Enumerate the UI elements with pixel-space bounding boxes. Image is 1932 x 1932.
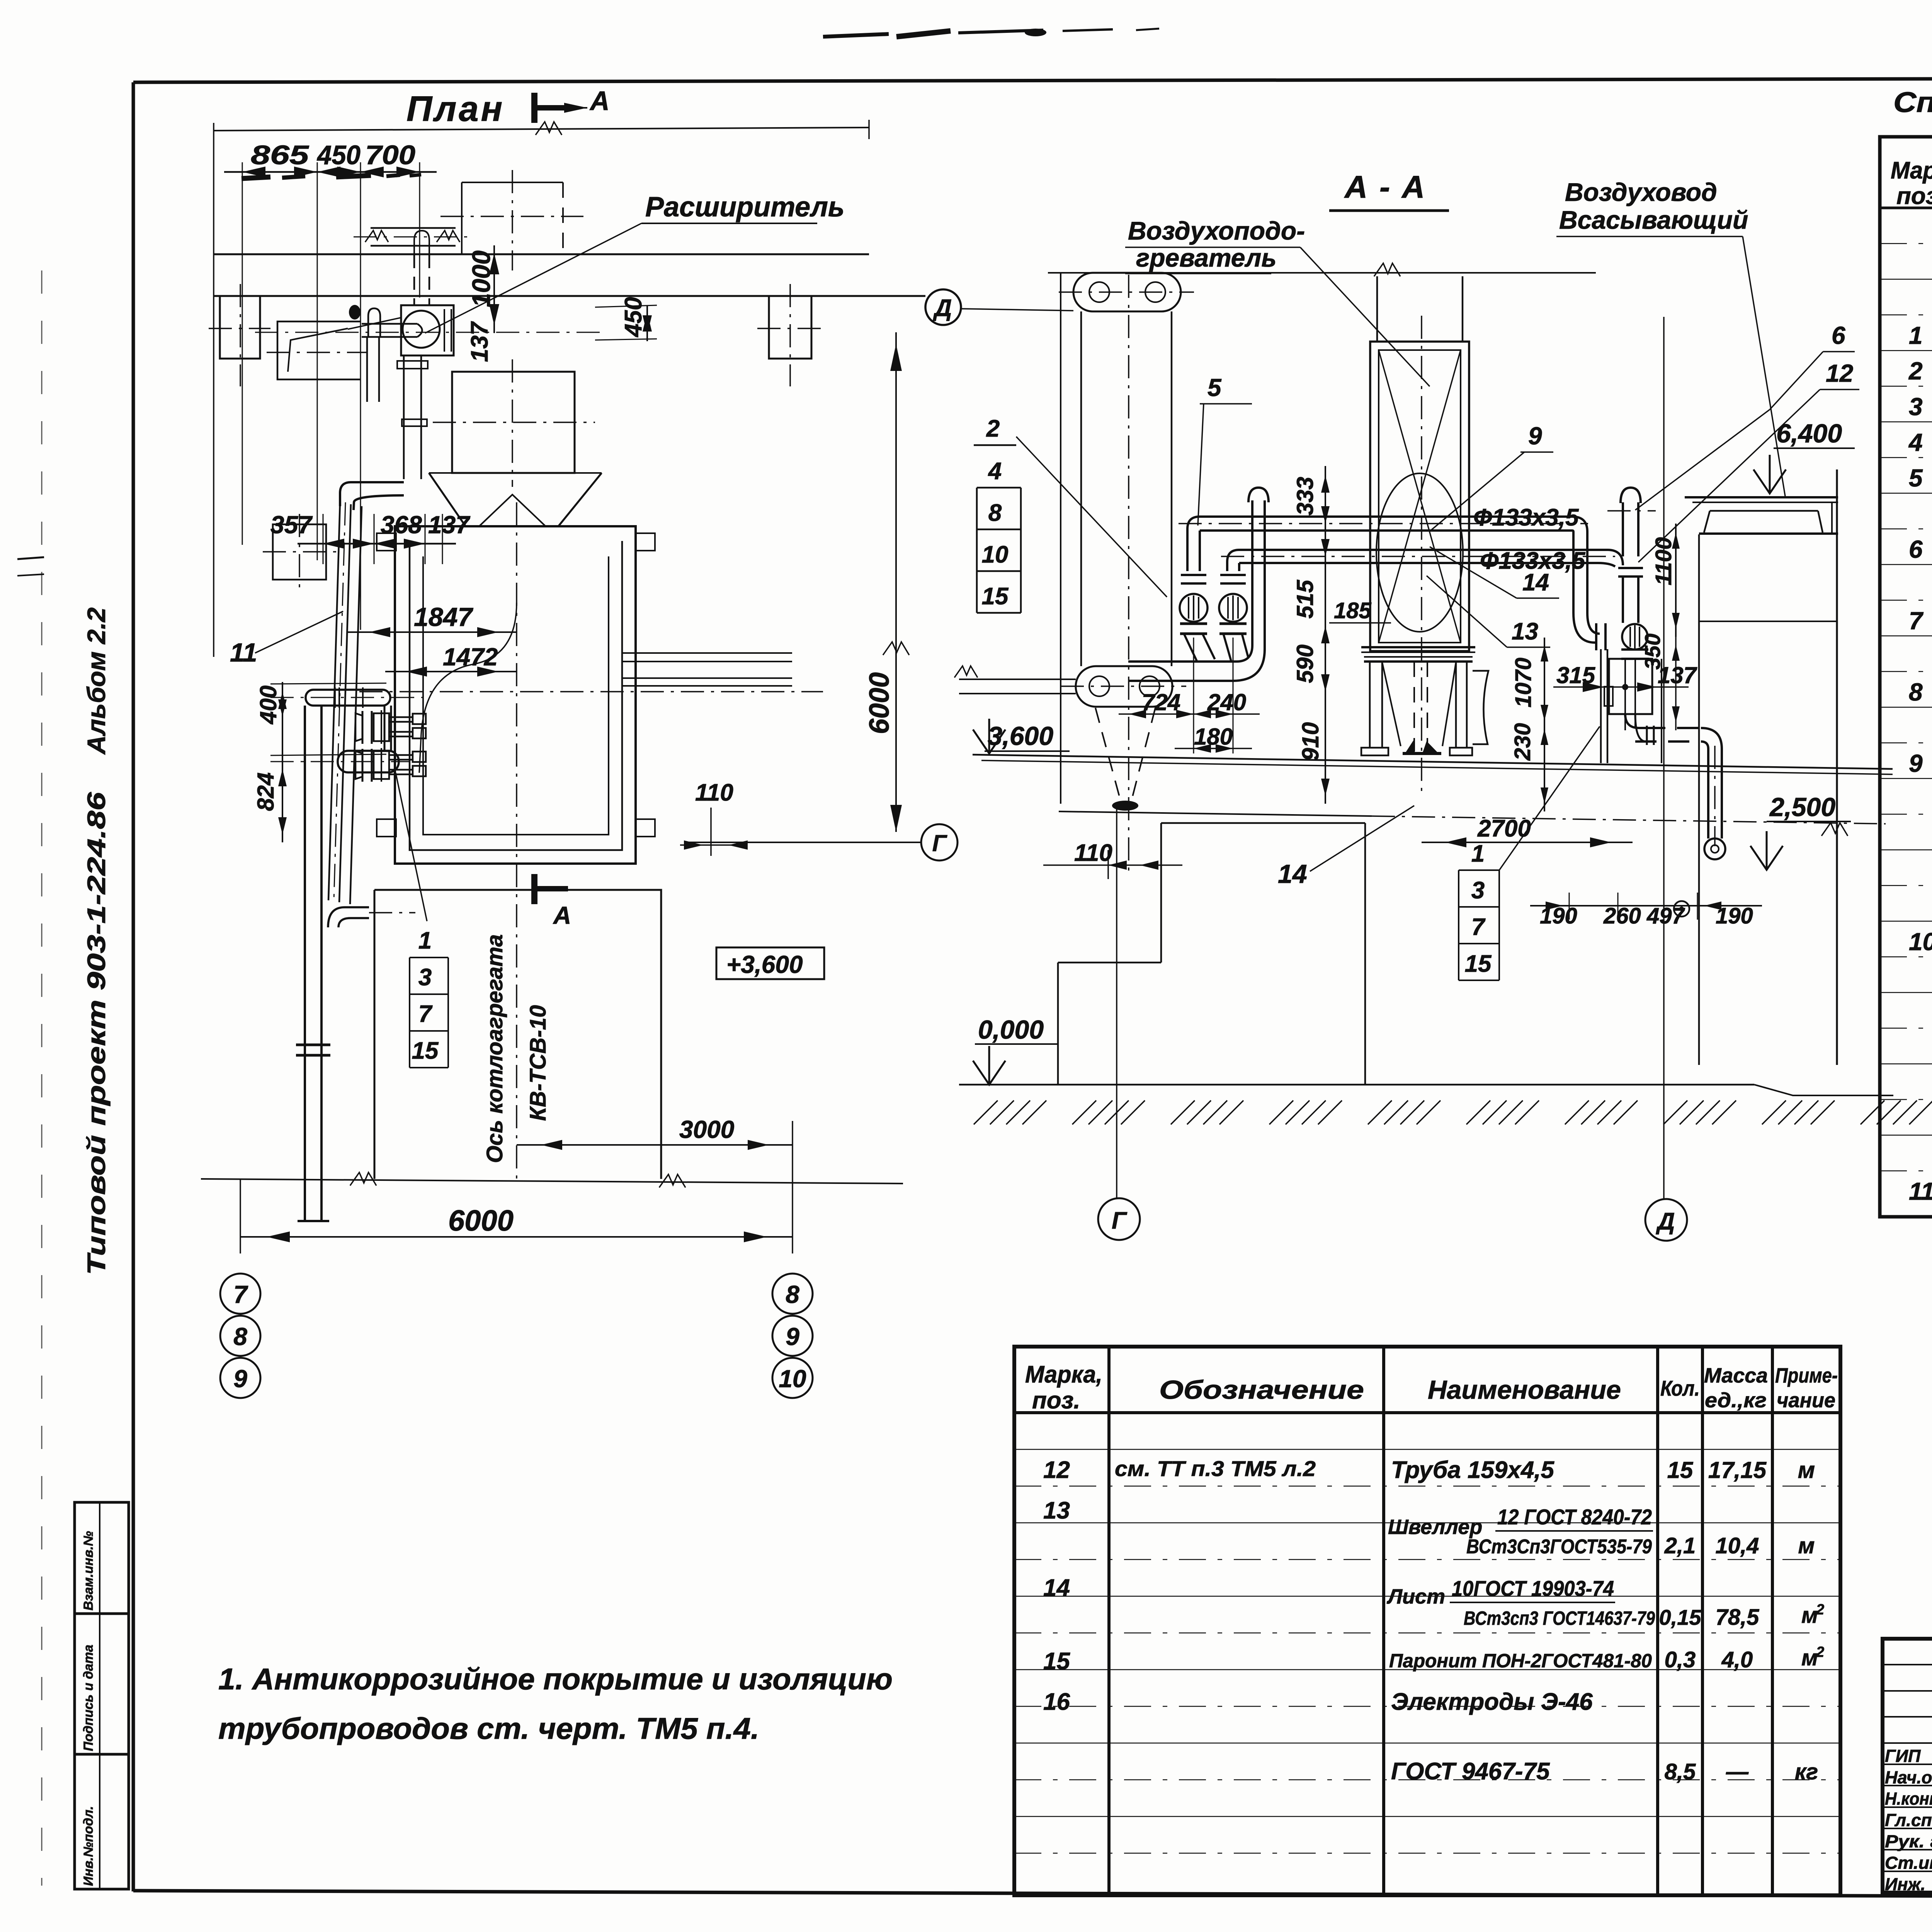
grid axis Д section <box>1645 317 1687 1241</box>
dim 6000 vertical arrowline <box>864 332 909 832</box>
svg-text:3: 3 <box>1471 877 1485 904</box>
right stub with cap <box>1607 488 1656 556</box>
svg-text:Швеллер: Швеллер <box>1388 1515 1482 1539</box>
svg-text:3000: 3000 <box>679 1116 734 1143</box>
plan overall dim line 6000 top <box>214 120 869 657</box>
wall top dark dashes <box>241 175 421 179</box>
svg-text:Паронит ПОН-2ГОСТ481-80: Паронит ПОН-2ГОСТ481-80 <box>1389 1650 1652 1672</box>
dim 824 rotated <box>253 724 386 842</box>
svg-text:Марка,: Марка, <box>1891 157 1932 184</box>
svg-text:9: 9 <box>1528 422 1542 450</box>
svg-text:ед.,кг: ед.,кг <box>1705 1389 1767 1412</box>
duct above unit <box>1377 276 1463 342</box>
svg-text:0,000: 0,000 <box>978 1015 1044 1044</box>
svg-text:1472: 1472 <box>443 643 498 671</box>
svg-text:Н.контр.: Н.контр. <box>1885 1789 1932 1809</box>
svg-text:8: 8 <box>233 1323 247 1350</box>
svg-text:700: 700 <box>365 140 415 170</box>
svg-text:1847: 1847 <box>414 602 473 632</box>
svg-text:333: 333 <box>1292 477 1318 515</box>
signatures left column <box>1885 1746 1932 1894</box>
svg-text:Рук. гр.: Рук. гр. <box>1885 1832 1932 1851</box>
svg-text:Г: Г <box>1112 1207 1128 1234</box>
floor 3,600 line <box>973 755 1893 824</box>
section cut mark A bottom <box>534 874 571 929</box>
svg-text:11: 11 <box>230 638 257 667</box>
svg-text:1: 1 <box>1471 840 1485 867</box>
svg-text:Масса: Масса <box>1704 1364 1768 1387</box>
spec rows <box>1908 251 1932 1205</box>
expander unit plan <box>362 305 454 355</box>
svg-text:78,5: 78,5 <box>1716 1605 1760 1630</box>
manifold lower pill <box>270 706 410 772</box>
damper box left <box>267 321 367 379</box>
lower pipe f133 <box>1221 550 1615 563</box>
lower table headers <box>1025 1361 1838 1414</box>
ground hatching <box>974 1100 1932 1124</box>
valve group A <box>355 710 426 744</box>
svg-text:Инж.: Инж. <box>1885 1874 1925 1894</box>
svg-text:Подпись и дата: Подпись и дата <box>81 1645 96 1751</box>
pipe B below unit <box>397 355 428 479</box>
svg-text:Всасывающий: Всасывающий <box>1559 206 1748 234</box>
dim 6000 bottom <box>240 1179 793 1253</box>
svg-text:137: 137 <box>466 321 493 362</box>
svg-text:350: 350 <box>1640 634 1665 670</box>
svg-text:230: 230 <box>1510 723 1535 761</box>
dim 357 368 137 <box>270 511 471 564</box>
svg-text:724: 724 <box>1142 689 1180 715</box>
dims 190 260 497 190 <box>1530 893 1762 929</box>
svg-text:ГОСТ 9467-75: ГОСТ 9467-75 <box>1391 1758 1550 1785</box>
svg-text:Типовой проект 903-1-224.86: Типовой проект 903-1-224.86 <box>82 791 111 1275</box>
left flue duct verticals <box>1081 311 1172 666</box>
hopper trapezoid plan <box>429 473 602 526</box>
svg-text:м: м <box>1798 1457 1815 1483</box>
svg-text:7: 7 <box>418 1001 433 1027</box>
dim 3000 <box>517 1116 793 1253</box>
dim 1000 rotated <box>467 245 499 333</box>
section title A-A <box>1329 170 1449 211</box>
label воздуховод всасывающий <box>1556 178 1785 496</box>
svg-text:5: 5 <box>1207 374 1222 401</box>
svg-text:Взам.инв.№: Взам.инв.№ <box>81 1531 96 1611</box>
svg-text:2700: 2700 <box>1477 815 1531 842</box>
svg-text:Кол.: Кол. <box>1660 1376 1700 1400</box>
svg-text:7: 7 <box>1471 914 1486 940</box>
left flue duct pill top <box>1059 273 1194 311</box>
leader to damper <box>348 318 401 329</box>
svg-text:357: 357 <box>270 511 313 539</box>
plan column stub left <box>209 284 270 386</box>
boiler pipes right <box>622 653 792 686</box>
svg-text:поз.: поз. <box>1032 1387 1080 1414</box>
svg-text:Воздухоподо-: Воздухоподо- <box>1128 216 1305 245</box>
svg-text:9: 9 <box>233 1365 247 1393</box>
crossing pipe at top <box>354 228 473 246</box>
scan smudges top <box>823 29 1159 37</box>
svg-text:кг: кг <box>1795 1759 1818 1784</box>
svg-text:4: 4 <box>1908 429 1923 456</box>
svg-text:0,3: 0,3 <box>1665 1647 1696 1672</box>
valve axis extensions <box>1194 638 1233 753</box>
spec table headers <box>1891 157 1932 209</box>
svg-text:Ф133х3,5: Ф133х3,5 <box>1473 504 1579 531</box>
svg-text:8: 8 <box>786 1281 799 1308</box>
svg-text:Лист: Лист <box>1386 1585 1445 1608</box>
svg-text:2,1: 2,1 <box>1664 1533 1696 1558</box>
svg-text:Обозначение: Обозначение <box>1159 1375 1364 1405</box>
svg-text:368: 368 <box>381 511 422 539</box>
svg-text:8,5: 8,5 <box>1665 1759 1696 1784</box>
svg-text:110: 110 <box>695 779 733 806</box>
svg-text:—: — <box>1726 1759 1749 1784</box>
right lower assembly <box>1601 649 1652 763</box>
insulated diagonal pipe <box>328 502 362 904</box>
expander pipe stub above band <box>414 231 429 305</box>
svg-text:Ось котлоагрегата: Ось котлоагрегата <box>482 934 507 1163</box>
lower table grid <box>1014 1347 1840 1895</box>
left page edge dashed line <box>41 270 43 1886</box>
svg-text:А: А <box>553 901 571 929</box>
svg-text:Наименование: Наименование <box>1428 1375 1621 1405</box>
svg-text:910: 910 <box>1298 722 1323 761</box>
svg-text:13: 13 <box>1512 618 1538 645</box>
svg-text:12: 12 <box>1043 1457 1070 1483</box>
svg-text:Г: Г <box>932 830 948 856</box>
svg-text:6000: 6000 <box>864 672 895 734</box>
svg-text:13: 13 <box>1043 1497 1070 1524</box>
svg-text:Спецификация на трубопроводы: Спецификация на трубопроводы подключения <box>1893 86 1932 118</box>
margin ticks <box>17 557 44 576</box>
dim 185 <box>1329 598 1391 623</box>
svg-text:Инв.№подл.: Инв.№подл. <box>81 1806 96 1886</box>
svg-text:ВСт3Сп3ГОСТ535-79: ВСт3Сп3ГОСТ535-79 <box>1466 1536 1652 1558</box>
section cut mark A top <box>534 86 610 123</box>
dim 137 rotated <box>466 321 493 362</box>
pipe A short vertical <box>367 337 379 402</box>
lower right pipe to elbow <box>1625 659 1725 859</box>
plan wall band <box>214 254 925 296</box>
funnel dashed lines <box>1095 708 1155 811</box>
dim 350 rotated <box>1640 634 1680 730</box>
manifold pipe upper pill <box>270 687 423 708</box>
svg-text:Приме-: Приме- <box>1775 1364 1838 1387</box>
leader and stack 1 3 7 15 plan <box>396 773 448 1068</box>
svg-text:Гл.спец.: Гл.спец. <box>1885 1810 1932 1830</box>
safety valve 1 <box>1180 575 1215 662</box>
line from Д circle to duct <box>961 309 1073 311</box>
svg-text:260: 260 <box>1603 903 1641 929</box>
svg-text:м: м <box>1798 1533 1815 1558</box>
svg-text:12: 12 <box>1826 359 1853 387</box>
left elbow down pipe1 <box>1187 517 1200 571</box>
upper pipe f133 <box>1179 517 1588 531</box>
rotated dims column mid <box>1292 466 1330 804</box>
svg-text:590: 590 <box>1292 645 1318 683</box>
svg-text:Ст.инж.: Ст.инж. <box>1885 1853 1932 1873</box>
plan title <box>406 89 505 129</box>
svg-text:1: 1 <box>418 927 432 954</box>
dim 2700 <box>1422 815 1633 847</box>
unit support stand <box>1361 647 1475 755</box>
air heater unit <box>1370 342 1469 651</box>
labels 14 13 mid <box>1427 547 1559 647</box>
svg-text:4: 4 <box>988 458 1002 485</box>
svg-text:см. ТТ п.3 ТМ5 л.2: см. ТТ п.3 ТМ5 л.2 <box>1115 1456 1316 1481</box>
vent valve dot <box>349 305 361 320</box>
level 6,400 <box>1753 419 1855 493</box>
svg-text:17,15: 17,15 <box>1708 1457 1767 1483</box>
svg-text:10: 10 <box>1909 928 1932 956</box>
svg-text:14: 14 <box>1522 569 1549 596</box>
elbow jog to diagonal pipe <box>340 482 404 510</box>
label 14 bottom <box>1278 806 1414 889</box>
svg-text:11: 11 <box>1909 1177 1932 1205</box>
svg-text:3: 3 <box>418 964 432 991</box>
svg-text:14: 14 <box>1043 1575 1070 1601</box>
pipe end below floor <box>298 1220 329 1222</box>
svg-text:497: 497 <box>1646 903 1685 929</box>
right wall <box>1699 469 1837 1065</box>
svg-text:ГИП: ГИП <box>1885 1746 1921 1766</box>
plan column stub right <box>757 284 823 386</box>
duct centerline <box>1128 275 1129 877</box>
svg-text:12 ГОСТ 8240-72: 12 ГОСТ 8240-72 <box>1497 1505 1652 1529</box>
left wall line <box>1060 273 1061 804</box>
stack 2 4 8 10 15 <box>974 415 1167 613</box>
lower branch elbow pipe <box>328 907 415 927</box>
svg-text:190: 190 <box>1540 903 1577 929</box>
label 5 <box>1198 374 1252 526</box>
roof slab right <box>1685 497 1838 621</box>
svg-text:2: 2 <box>986 415 1000 442</box>
svg-text:Марка,: Марка, <box>1025 1361 1102 1388</box>
dim 1847 <box>347 602 517 637</box>
svg-text:15: 15 <box>1465 951 1492 977</box>
svg-text:Д: Д <box>933 295 952 321</box>
safety valve 2 <box>1219 575 1248 661</box>
title block main <box>1883 1639 1932 1893</box>
right valve <box>1596 623 1648 650</box>
valve group B <box>355 748 426 782</box>
svg-text:3: 3 <box>1909 393 1923 421</box>
dim 450 rotated <box>595 297 657 341</box>
spec table grid <box>1880 137 1932 1217</box>
axis centerline boiler <box>516 502 517 1179</box>
svg-text:6000: 6000 <box>448 1204 514 1237</box>
grid circles 8 9 10 right <box>772 1274 813 1314</box>
svg-text:865: 865 <box>251 140 309 170</box>
svg-text:Альбом 2.2: Альбом 2.2 <box>82 607 111 755</box>
section top break line <box>1048 263 1596 276</box>
svg-text:10,4: 10,4 <box>1716 1533 1759 1558</box>
svg-text:1. Антикоррозийное покрытие: 1. Антикоррозийное покрытие и изоляцию <box>218 1662 893 1696</box>
svg-text:14: 14 <box>1278 859 1307 889</box>
note text <box>218 1662 893 1745</box>
svg-text:трубопроводов ст. черт. ТМ5: трубопроводов ст. черт. ТМ5 п.4. <box>218 1711 759 1745</box>
svg-text:КВ-ТСВ-10: КВ-ТСВ-10 <box>526 1005 551 1121</box>
svg-text:Труба 159х4,5: Труба 159х4,5 <box>1391 1457 1555 1483</box>
svg-text:2: 2 <box>1908 357 1923 385</box>
discharge bottom pipe and riser with cap <box>1128 488 1269 681</box>
svg-text:Нач.отд: Нач.отд <box>1885 1767 1932 1787</box>
svg-text:824: 824 <box>253 772 279 811</box>
label воздухоподогреватель <box>1125 216 1430 386</box>
dim 315 <box>1553 662 1689 692</box>
main long vertical pipe <box>305 706 321 1221</box>
svg-text:Электроды Э-46: Электроды Э-46 <box>1391 1689 1593 1715</box>
svg-text:8: 8 <box>988 500 1002 526</box>
dim 110 plan <box>680 779 748 856</box>
svg-text:м: м <box>1801 1645 1818 1670</box>
spec table title <box>1893 86 1932 141</box>
svg-text:10ГОСТ 19903-74: 10ГОСТ 19903-74 <box>1452 1576 1614 1600</box>
svg-text:9: 9 <box>786 1323 799 1350</box>
lower table rows <box>1043 1456 1824 1785</box>
stack 1 3 7 15 section <box>1459 726 1600 980</box>
dim 400 rotated <box>255 682 386 724</box>
svg-text:А: А <box>589 86 610 116</box>
ground line <box>959 1085 1893 1095</box>
svg-text:15: 15 <box>1043 1648 1070 1675</box>
svg-text:15: 15 <box>982 583 1009 610</box>
dim 110 section <box>1043 840 1182 879</box>
svg-text:2: 2 <box>1816 1644 1824 1660</box>
plan floor line <box>201 1172 903 1187</box>
boiler outline plan <box>359 526 823 864</box>
flue rect plan <box>433 359 595 487</box>
svg-text:450: 450 <box>620 297 647 338</box>
level 2,500 <box>1750 793 1851 870</box>
support circle on dim line <box>1674 901 1689 917</box>
svg-text:515: 515 <box>1292 579 1318 619</box>
right elbow pipe1 down <box>1572 517 1600 643</box>
+3,600 box <box>716 947 824 979</box>
grid axis Г section <box>1098 804 1140 1240</box>
left elbow down pipe2 <box>1227 550 1239 571</box>
svg-text:240: 240 <box>1207 689 1246 715</box>
left small column rect <box>263 514 336 591</box>
svg-text:0,15: 0,15 <box>1659 1605 1702 1629</box>
svg-text:137: 137 <box>428 511 471 539</box>
svg-text:1100: 1100 <box>1651 537 1676 585</box>
svg-text:185: 185 <box>1334 598 1372 623</box>
svg-text:15: 15 <box>412 1037 439 1064</box>
svg-text:4,0: 4,0 <box>1721 1647 1753 1672</box>
left stamp boxes <box>75 1502 129 1889</box>
svg-text:А - А: А - А <box>1344 170 1426 205</box>
svg-text:Расширитель: Расширитель <box>645 192 845 223</box>
расширитель label <box>425 192 845 333</box>
svg-text:поз.: поз. <box>1896 183 1932 209</box>
fundament section <box>1058 823 1365 1085</box>
svg-text:1: 1 <box>1909 321 1923 349</box>
svg-text:10: 10 <box>982 541 1009 568</box>
svg-text:7: 7 <box>233 1281 248 1308</box>
dim 1472 <box>385 643 517 677</box>
level 0,000 <box>973 1015 1059 1085</box>
svg-text:9: 9 <box>1909 750 1923 777</box>
svg-text:10: 10 <box>779 1365 806 1393</box>
svg-text:6: 6 <box>1909 536 1923 563</box>
svg-text:План: План <box>406 89 505 129</box>
svg-text:110: 110 <box>1074 840 1112 866</box>
svg-text:чание: чание <box>1777 1389 1835 1412</box>
upper duct rect plan <box>440 170 583 270</box>
right elbow pipe2 into riser <box>1598 550 1643 623</box>
svg-text:ВСт3сп3 ГОСТ14637-79: ВСт3сп3 ГОСТ14637-79 <box>1464 1607 1655 1629</box>
svg-text:5: 5 <box>1909 464 1923 492</box>
labels 6 and 12 <box>1635 321 1859 562</box>
grid circle Д plan/section <box>925 289 961 325</box>
lower-left dashed pipe horiz <box>954 666 1076 694</box>
grid circle Г plan <box>687 824 957 861</box>
label 9 <box>1430 422 1553 531</box>
dim 137 right <box>1658 662 1697 688</box>
svg-text:7: 7 <box>1909 607 1924 634</box>
svg-text:16: 16 <box>1043 1689 1070 1715</box>
dims 724 240 180 <box>1119 689 1260 753</box>
dim 865 450 700 <box>224 140 437 630</box>
fundament rect plan <box>374 890 661 1179</box>
svg-text:8: 8 <box>1909 678 1923 706</box>
level 3,600 <box>973 719 1070 753</box>
svg-text:3,600: 3,600 <box>988 721 1053 751</box>
svg-text:м: м <box>1801 1603 1818 1628</box>
unit centerline dashdot <box>255 332 607 333</box>
svg-text:2: 2 <box>1816 1602 1824 1618</box>
dims 1070 230 rotated <box>1510 638 1548 811</box>
svg-text:400: 400 <box>255 685 281 724</box>
unit centerline <box>1421 316 1422 796</box>
left flue duct pill bottom <box>1061 666 1186 707</box>
svg-text:1000: 1000 <box>467 250 495 307</box>
svg-text:6,400: 6,400 <box>1776 419 1842 448</box>
grid circles 7 8 9 left <box>220 1274 260 1314</box>
svg-text:180: 180 <box>1194 724 1233 750</box>
dim 1100 rotated <box>1651 524 1680 637</box>
vent stub on pipe <box>368 308 380 337</box>
svg-text:Д: Д <box>1656 1208 1675 1235</box>
svg-text:15: 15 <box>1667 1457 1694 1483</box>
svg-text:450: 450 <box>316 140 361 170</box>
svg-text:+3,600: +3,600 <box>726 951 803 978</box>
svg-text:2,500: 2,500 <box>1769 793 1835 822</box>
equipment right of stand <box>1473 671 1488 744</box>
svg-text:Воздуховод: Воздуховод <box>1565 178 1717 206</box>
pipe flange pair <box>296 1045 330 1055</box>
svg-text:6: 6 <box>1832 321 1845 349</box>
label 11 <box>230 611 343 667</box>
curve brace boiler <box>419 603 517 773</box>
svg-text:1070: 1070 <box>1511 658 1536 707</box>
